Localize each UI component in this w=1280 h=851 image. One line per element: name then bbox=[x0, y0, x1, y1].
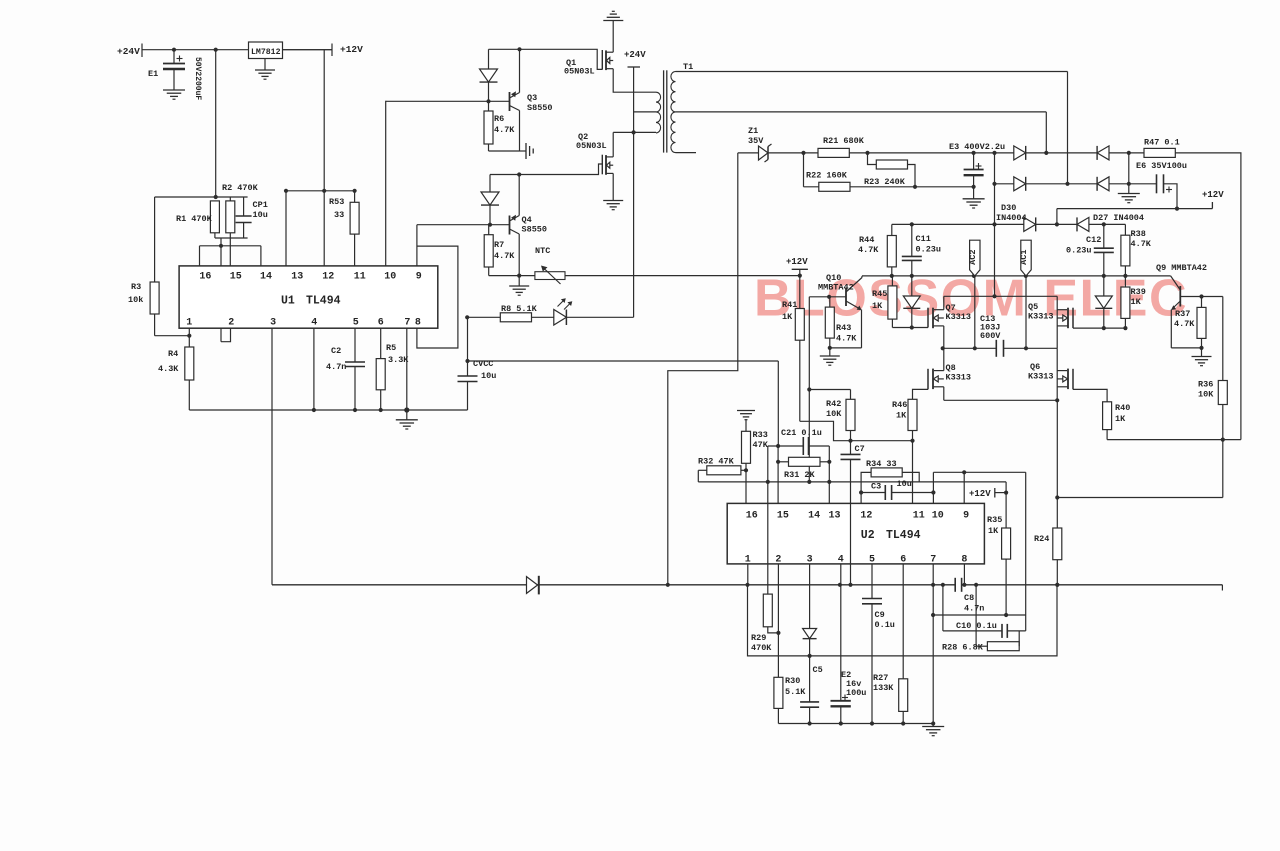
svg-text:7: 7 bbox=[930, 555, 936, 566]
wire pin 10 lead bbox=[932, 472, 934, 503]
svg-text:R21 680K: R21 680K bbox=[823, 136, 865, 146]
svg-text:R29: R29 bbox=[751, 633, 766, 643]
wire R42 R46 bottoms bbox=[851, 440, 913, 442]
svg-text:7: 7 bbox=[404, 318, 410, 329]
svg-text:R30: R30 bbox=[785, 676, 800, 686]
ground below E3 bbox=[963, 198, 985, 200]
wire to +12V bbox=[283, 49, 333, 51]
wire R40 R36 node line bbox=[1107, 439, 1241, 441]
resistor R44 4.7K bbox=[891, 224, 893, 235]
svg-text:R3: R3 bbox=[131, 282, 141, 292]
svg-text:LM7812: LM7812 bbox=[251, 48, 281, 57]
svg-text:9: 9 bbox=[416, 272, 422, 283]
svg-text:5: 5 bbox=[353, 318, 359, 329]
wire R42 top line bbox=[809, 389, 850, 391]
wire R53 top line bbox=[286, 190, 355, 192]
transistor Q7 K3313 mosfet bbox=[927, 308, 929, 328]
wire pin 16 lead bbox=[745, 470, 747, 503]
capacitor C21 0.1u bbox=[768, 445, 804, 447]
resistor R47 0.1 bbox=[1144, 148, 1175, 157]
svg-text:5: 5 bbox=[869, 555, 875, 566]
wire pin 3 down to bus bbox=[271, 328, 273, 585]
svg-text:10: 10 bbox=[932, 511, 944, 522]
net label AC2 bbox=[970, 240, 980, 276]
svg-text:C11: C11 bbox=[916, 234, 931, 244]
svg-text:10K: 10K bbox=[826, 409, 842, 419]
svg-text:2: 2 bbox=[228, 318, 234, 329]
capacitor C7 bbox=[850, 441, 852, 455]
wire Z1 loop down to bus bbox=[668, 153, 738, 585]
wire +24V to center tap bbox=[634, 111, 656, 113]
svg-text:R1 470K: R1 470K bbox=[176, 214, 213, 224]
diode clamp right bbox=[1103, 276, 1105, 296]
svg-text:+24V: +24V bbox=[117, 46, 140, 57]
wire pin 4 down bbox=[313, 328, 315, 410]
svg-text:R28 6.8K: R28 6.8K bbox=[942, 643, 984, 653]
resistor R24 bbox=[1056, 400, 1058, 528]
svg-text:13: 13 bbox=[291, 272, 303, 283]
ground below Q2 bbox=[603, 200, 623, 202]
svg-text:R7: R7 bbox=[494, 240, 504, 250]
svg-text:33: 33 bbox=[334, 210, 344, 220]
ground above R33 bbox=[737, 410, 755, 412]
capacitor C12 0.23u bbox=[1103, 224, 1105, 248]
wire R47 to R36 node bbox=[1175, 153, 1241, 440]
wire R46 down to pin 11 bbox=[912, 441, 914, 504]
transistor Q6 K3313 mosfet bbox=[1072, 369, 1074, 390]
junction R1R2 top bbox=[214, 195, 218, 199]
wire transformer mid to bridge bbox=[1045, 112, 1047, 153]
svg-text:R40: R40 bbox=[1115, 403, 1130, 413]
svg-text:Z1: Z1 bbox=[748, 126, 758, 136]
svg-text:+12V: +12V bbox=[340, 44, 363, 55]
wire pin 9 lead bbox=[963, 472, 965, 503]
svg-text:C9: C9 bbox=[875, 610, 885, 620]
svg-text:R35: R35 bbox=[987, 515, 1002, 525]
wire H-bridge bottom rail bbox=[944, 399, 1057, 401]
svg-text:T1: T1 bbox=[683, 62, 693, 72]
wire secondary top long wire bbox=[676, 71, 1068, 73]
capacitor C2 4.7n bbox=[354, 328, 356, 362]
svg-text:C12: C12 bbox=[1086, 235, 1101, 245]
svg-text:1: 1 bbox=[745, 555, 751, 566]
capacitor C10 0.1u bbox=[942, 585, 944, 631]
wire AC1 to mid rail bbox=[1025, 276, 1027, 348]
wire cluster bottom bbox=[215, 237, 248, 239]
svg-text:10k: 10k bbox=[128, 295, 143, 305]
transistor Q5 K3313 mosfet bbox=[1072, 308, 1074, 328]
wire R36 down to R24 line bbox=[1057, 497, 1223, 499]
svg-text:Q8: Q8 bbox=[946, 363, 956, 373]
junction pin1 R4 bbox=[187, 334, 191, 338]
wire pin 8 loop bbox=[417, 246, 458, 348]
svg-text:R5: R5 bbox=[386, 343, 396, 353]
wire pin 13 to +12V line bbox=[285, 191, 287, 266]
wire loop right to pin 13 bbox=[828, 446, 830, 503]
wire C8 feedback line bbox=[933, 614, 1026, 616]
svg-text:C8: C8 bbox=[964, 593, 974, 603]
svg-text:35V: 35V bbox=[748, 136, 764, 146]
svg-text:R34 33: R34 33 bbox=[866, 459, 897, 469]
svg-text:100u: 100u bbox=[846, 688, 866, 698]
svg-text:2: 2 bbox=[775, 555, 781, 566]
ground above Q1 bbox=[603, 20, 623, 22]
svg-text:MMBTA42: MMBTA42 bbox=[818, 283, 854, 293]
wire +24V down the middle bbox=[633, 67, 635, 317]
svg-text:12: 12 bbox=[322, 272, 334, 283]
wire pins 16-15-14 tie line bbox=[200, 245, 261, 247]
svg-text:R43: R43 bbox=[836, 323, 851, 333]
diode Z1 35V zener bbox=[759, 146, 769, 160]
svg-text:13: 13 bbox=[828, 511, 840, 522]
svg-text:R38: R38 bbox=[1131, 229, 1146, 239]
ground Q3 rotated bbox=[520, 150, 527, 152]
wire secondary mid long wire bbox=[676, 111, 1047, 113]
resistor R33 47K bbox=[745, 420, 747, 432]
capacitor C11 0.23u bbox=[911, 224, 913, 256]
transistor Q4 S8550 bbox=[509, 216, 511, 235]
svg-text:R47 0.1: R47 0.1 bbox=[1144, 138, 1180, 148]
svg-text:4.7K: 4.7K bbox=[494, 251, 515, 261]
svg-text:R27: R27 bbox=[873, 673, 888, 683]
resistor R23 240K bbox=[868, 153, 877, 165]
resistor R35 1K bbox=[1005, 493, 1007, 528]
wire through U2 to R29 bbox=[767, 446, 769, 594]
svg-text:U2: U2 bbox=[861, 529, 875, 542]
wire lower rectifier row bbox=[995, 183, 1157, 185]
diode bridge upper left bbox=[1014, 146, 1026, 160]
resistor R45 1K bbox=[891, 276, 893, 286]
svg-text:4: 4 bbox=[838, 555, 844, 566]
resistor R41 1K bbox=[799, 269, 801, 308]
svg-text:4: 4 bbox=[311, 318, 317, 329]
wire Q7 gate line bbox=[892, 327, 928, 329]
capacitor C9 0.1u bbox=[871, 564, 873, 599]
wire Q2 drain to primary bottom bbox=[613, 131, 656, 133]
resistor R22 160K bbox=[819, 182, 850, 191]
wire transformer top to bridge bbox=[1067, 72, 1069, 184]
svg-text:4.7K: 4.7K bbox=[858, 245, 879, 255]
svg-text:Q5: Q5 bbox=[1028, 302, 1038, 312]
op-amp U2 TL494 bbox=[727, 503, 984, 564]
resistor R5 3.3K bbox=[380, 328, 382, 358]
ground bridge bbox=[1118, 193, 1140, 195]
resistor R53 33 bbox=[354, 191, 356, 203]
diode zener at Q4 bbox=[489, 175, 491, 193]
capacitor C13 103J 600V bbox=[995, 340, 997, 357]
wire pin 2 to R30 bbox=[777, 564, 779, 677]
resistor R42 10K bbox=[850, 390, 852, 400]
wire U2 bottom rail bbox=[778, 723, 933, 725]
svg-text:R33: R33 bbox=[753, 430, 768, 440]
resistor R32 47K bbox=[698, 469, 707, 471]
svg-text:4.7K: 4.7K bbox=[836, 334, 857, 344]
svg-text:CP1: CP1 bbox=[253, 200, 268, 210]
svg-text:10: 10 bbox=[384, 272, 396, 283]
svg-text:R39: R39 bbox=[1131, 287, 1146, 297]
svg-text:1K: 1K bbox=[872, 301, 883, 311]
net label AC1 bbox=[1021, 240, 1031, 276]
ground below R43 bbox=[829, 348, 831, 356]
svg-text:3: 3 bbox=[807, 555, 813, 566]
transistor Q2 05N03L mosfet bbox=[612, 132, 614, 157]
resistor R21 680K bbox=[818, 148, 849, 157]
svg-text:R8 5.1K: R8 5.1K bbox=[501, 304, 538, 314]
wire LED to +24V line bbox=[566, 316, 633, 318]
wire pin 7 to ground bbox=[406, 328, 408, 420]
svg-text:Q9 MMBTA42: Q9 MMBTA42 bbox=[1156, 263, 1207, 273]
wire Q4 emitter rail bbox=[489, 275, 535, 277]
wire +12V output line bbox=[1057, 208, 1213, 210]
resistor R2 470K bbox=[229, 197, 231, 201]
wire line A to C10 corner bbox=[933, 471, 1025, 473]
svg-text:133K: 133K bbox=[873, 683, 894, 693]
wire pin 7 to ground bbox=[932, 564, 934, 727]
resistor R37 4.7K bbox=[1201, 297, 1203, 308]
transistor Q10 MMBTA42 bbox=[809, 296, 846, 298]
transistor Q3 S8550 bbox=[509, 92, 511, 111]
wire through U1 to pin 2 bbox=[220, 238, 222, 342]
svg-text:R6: R6 bbox=[494, 114, 504, 124]
resistor R3 10k bbox=[154, 197, 156, 282]
svg-text:D27 IN4004: D27 IN4004 bbox=[1093, 213, 1144, 223]
svg-text:3.3K: 3.3K bbox=[388, 355, 409, 365]
wire Q1 source to primary top bbox=[613, 69, 656, 93]
diode bridge lower left bbox=[1014, 177, 1026, 191]
diode bridge upper right bbox=[1096, 146, 1098, 160]
op-amp U1 TL494 bbox=[179, 266, 438, 328]
svg-text:U1: U1 bbox=[281, 295, 295, 308]
svg-text:1K: 1K bbox=[782, 312, 793, 322]
wire Q8 gate to R46 bbox=[913, 389, 929, 399]
svg-text:1K: 1K bbox=[1131, 297, 1142, 307]
wire +24V down to R1R2 bbox=[215, 50, 217, 197]
svg-text:05N03L: 05N03L bbox=[564, 67, 595, 77]
svg-text:R41: R41 bbox=[782, 300, 797, 310]
svg-text:R53: R53 bbox=[329, 197, 344, 207]
wire main bus bbox=[272, 584, 955, 586]
wire U1 bottom rail bbox=[189, 409, 467, 411]
transistor Q9 MMBTA42 bbox=[1171, 276, 1181, 290]
svg-text:C21 0.1u: C21 0.1u bbox=[781, 428, 822, 438]
wire D30 D27 line bbox=[892, 223, 1126, 225]
svg-text:4.7n: 4.7n bbox=[326, 362, 346, 372]
svg-text:50V2200uF: 50V2200uF bbox=[193, 57, 202, 100]
svg-text:R23 240K: R23 240K bbox=[864, 177, 906, 187]
wire H-bridge top rail bbox=[944, 295, 1057, 297]
capacitor E2 16v 100u bbox=[840, 564, 842, 701]
svg-text:D30: D30 bbox=[1001, 203, 1016, 213]
LED diode bbox=[554, 310, 567, 326]
svg-text:Q4: Q4 bbox=[522, 215, 532, 225]
wire feedback U1 to U2 bbox=[468, 360, 779, 362]
wire +12V down to U1 pin 12 bbox=[323, 50, 325, 266]
wire +24V rail bbox=[142, 49, 332, 51]
svg-text:C2: C2 bbox=[331, 346, 341, 356]
wire pin 12 lead bbox=[860, 493, 862, 504]
svg-text:0.23u: 0.23u bbox=[916, 245, 942, 255]
svg-text:0.1u: 0.1u bbox=[875, 620, 895, 630]
node +12V bbox=[331, 44, 333, 57]
svg-text:Q10: Q10 bbox=[826, 273, 841, 283]
svg-text:0.23u: 0.23u bbox=[1066, 246, 1092, 256]
svg-text:E6 35V100u: E6 35V100u bbox=[1136, 161, 1187, 171]
resistor R36 10K bbox=[1218, 381, 1227, 405]
svg-text:3: 3 bbox=[270, 318, 276, 329]
wire pins bus line bbox=[698, 481, 1006, 483]
svg-text:1K: 1K bbox=[988, 526, 999, 536]
wire pin 10 to Q3 base line bbox=[385, 101, 387, 266]
diode at pin 3 bbox=[809, 564, 811, 629]
svg-text:1K: 1K bbox=[896, 411, 907, 421]
svg-text:E3 400V2.2u: E3 400V2.2u bbox=[949, 142, 1005, 152]
svg-text:Q3: Q3 bbox=[527, 93, 537, 103]
svg-text:K3313: K3313 bbox=[1028, 312, 1054, 322]
wire bridge output down to H-bridge bbox=[994, 153, 996, 296]
resistor R7 4.7K bbox=[488, 225, 490, 235]
wire pin 8 to bus bbox=[963, 564, 965, 585]
svg-text:47K: 47K bbox=[753, 440, 769, 450]
wire Q4 base line bbox=[417, 224, 510, 226]
svg-text:1: 1 bbox=[186, 318, 192, 329]
resistor R46 1K bbox=[912, 398, 914, 400]
resistor R27 133K bbox=[902, 564, 904, 679]
svg-text:8: 8 bbox=[415, 318, 421, 329]
wire gate bias rail bbox=[862, 275, 1171, 277]
transistor Q8 K3313 mosfet bbox=[927, 369, 929, 390]
thermistor NTC bbox=[535, 272, 565, 280]
svg-text:R37: R37 bbox=[1175, 309, 1190, 319]
regulator LM7812 bbox=[249, 42, 283, 59]
resistor R31 2K bbox=[778, 461, 788, 463]
resistor R30 5.1K bbox=[774, 677, 783, 708]
wire Q6 gate to R40 bbox=[1073, 389, 1107, 401]
wire pin 14 lead bbox=[260, 246, 262, 266]
ground U2 rail bbox=[922, 726, 944, 728]
wire Q10 base down to U2 pin 14 bbox=[808, 297, 810, 482]
resistor R40 1K bbox=[1103, 402, 1112, 430]
svg-text:15: 15 bbox=[230, 272, 242, 283]
svg-text:K3313: K3313 bbox=[946, 312, 972, 322]
wire R41 jog to C7 bbox=[800, 421, 851, 440]
svg-text:R46: R46 bbox=[892, 400, 907, 410]
svg-text:9: 9 bbox=[963, 511, 969, 522]
resistor R4 4.3K bbox=[188, 328, 190, 347]
junction R1R2 feed bbox=[214, 48, 218, 52]
svg-text:K3313: K3313 bbox=[1028, 372, 1054, 382]
wire H-bridge mid rail bbox=[943, 347, 997, 349]
svg-text:10u: 10u bbox=[897, 479, 912, 489]
wire bus to R35 bbox=[1005, 482, 1007, 493]
capacitor CVCC 10u bbox=[467, 317, 469, 376]
svg-text:14: 14 bbox=[260, 272, 272, 283]
ground below R37 bbox=[1201, 348, 1203, 357]
svg-text:Q6: Q6 bbox=[1030, 362, 1040, 372]
svg-text:R4: R4 bbox=[168, 349, 178, 359]
wire Q3 base line bbox=[386, 100, 510, 102]
svg-text:+12V: +12V bbox=[1202, 190, 1224, 200]
svg-text:10K: 10K bbox=[1198, 390, 1214, 400]
capacitor C5 bbox=[800, 701, 819, 703]
svg-text:S8550: S8550 bbox=[527, 103, 553, 113]
wire Q5 gate line bbox=[1073, 327, 1125, 329]
wire pin 16 lead bbox=[199, 246, 201, 266]
svg-text:16: 16 bbox=[746, 511, 758, 522]
svg-text:5.1K: 5.1K bbox=[785, 687, 806, 697]
svg-text:15: 15 bbox=[777, 511, 789, 522]
wire R22 branch bbox=[803, 153, 805, 187]
ground below Q4 bbox=[518, 276, 520, 286]
svg-text:+24V: +24V bbox=[624, 50, 646, 60]
wire bottom loop bbox=[748, 585, 1058, 656]
wire NTC to +12V node bbox=[565, 275, 800, 277]
wire pin 15 lead bbox=[229, 238, 231, 266]
svg-text:TL494: TL494 bbox=[306, 295, 341, 308]
svg-text:6: 6 bbox=[378, 318, 384, 329]
svg-text:470K: 470K bbox=[751, 643, 772, 653]
wire pin 1 to bus and loop bbox=[747, 564, 749, 585]
svg-text:R22 160K: R22 160K bbox=[806, 171, 848, 181]
ground below E1 bbox=[163, 89, 185, 91]
svg-text:11: 11 bbox=[354, 272, 366, 283]
svg-text:+12V: +12V bbox=[969, 489, 991, 499]
svg-text:IN4004: IN4004 bbox=[996, 213, 1027, 223]
diode D30 IN4004 bbox=[1024, 217, 1036, 231]
diode bridge lower right bbox=[1096, 177, 1098, 191]
capacitor CP1 10u bbox=[243, 197, 245, 216]
svg-text:TL494: TL494 bbox=[886, 529, 921, 542]
diode zener at Q3 bbox=[488, 49, 490, 69]
resistor R43 4.7K bbox=[829, 297, 831, 307]
svg-text:10u: 10u bbox=[481, 371, 496, 381]
resistor R29 470K bbox=[763, 594, 772, 627]
wire Z1 input line bbox=[738, 152, 759, 154]
svg-text:4.7n: 4.7n bbox=[964, 604, 984, 614]
svg-text:R24: R24 bbox=[1034, 534, 1049, 544]
svg-text:R44: R44 bbox=[859, 235, 874, 245]
capacitor C3 10u bbox=[861, 492, 885, 494]
svg-text:05N03L: 05N03L bbox=[576, 141, 607, 151]
wire pin 15 lead bbox=[777, 446, 779, 503]
svg-text:S8550: S8550 bbox=[522, 225, 548, 235]
svg-text:K3313: K3313 bbox=[946, 373, 972, 383]
svg-text:4.7K: 4.7K bbox=[1174, 319, 1195, 329]
wire upper rectifier row bbox=[768, 152, 1144, 154]
svg-text:AC1: AC1 bbox=[1019, 250, 1029, 265]
svg-text:R32 47K: R32 47K bbox=[698, 457, 735, 467]
resistor R38 4.7K bbox=[1124, 224, 1126, 235]
resistor R1 470K bbox=[210, 201, 219, 233]
svg-text:600V: 600V bbox=[980, 331, 1001, 341]
svg-text:NTC: NTC bbox=[535, 246, 550, 256]
svg-text:R36: R36 bbox=[1198, 380, 1213, 390]
wire Q2 gate drive line bbox=[490, 164, 602, 175]
svg-text:8: 8 bbox=[961, 555, 967, 566]
transistor Q1 05N03L mosfet bbox=[612, 21, 614, 53]
svg-text:R31 2K: R31 2K bbox=[784, 470, 816, 480]
resistor R8 5.1K bbox=[500, 313, 531, 322]
capacitor E1 50V2200uF bbox=[173, 50, 175, 64]
wire R8 LED line bbox=[465, 315, 469, 319]
capacitor C8 4.7n bbox=[954, 578, 956, 592]
svg-text:R42: R42 bbox=[826, 399, 841, 409]
resistor R28 6.8K bbox=[975, 585, 977, 646]
capacitor E3 400V2.2u bbox=[973, 153, 975, 170]
wire pin 9 to Q4 base line bbox=[416, 225, 418, 266]
diode clamp left bbox=[911, 276, 913, 296]
diode D27 IN4004 bbox=[1076, 217, 1078, 231]
wire Q9 collector to R36 bbox=[1222, 297, 1224, 381]
